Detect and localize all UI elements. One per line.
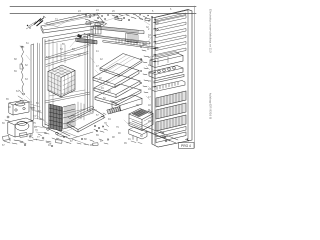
freezer drawer band 1 (hatched) — [156, 91, 186, 107]
right margin rotated text upper — [209, 9, 213, 53]
door top trim bar — [156, 13, 186, 21]
right margin rotated text lower — [209, 93, 213, 119]
hinge arrow cluster (dark) — [26, 16, 46, 29]
leader lines scattered — [26, 14, 152, 134]
cabinet front rail top (diagonal) — [45, 45, 88, 61]
svg-text:PRG 4: PRG 4 — [181, 144, 191, 148]
door seal strips (left) — [31, 43, 40, 121]
door shelf bar 6 — [156, 48, 186, 57]
middle stacked shelf 1 (wire shelf) — [100, 54, 142, 77]
small hatched box left of strip A — [91, 27, 101, 35]
door shelf bar 5 — [156, 42, 186, 51]
compressor unit upper (fan box) — [9, 100, 35, 115]
trim strip above panel — [46, 14, 88, 24]
cabinet interior lines — [49, 35, 85, 119]
long rail lower — [103, 41, 158, 50]
small parts row far top — [112, 14, 156, 21]
egg tray — [152, 81, 185, 92]
title box bottom right — [179, 143, 195, 149]
screw above title box — [186, 139, 190, 142]
door kick plate — [156, 132, 186, 143]
plinth diagonals bottom right of center — [128, 121, 178, 143]
evaporator box (hatched top) — [129, 109, 153, 131]
middle stacked shelf 4 — [95, 84, 141, 106]
small hatched grille bottom center (dark) — [101, 107, 121, 118]
compressor housing block (hatched) — [63, 104, 75, 129]
mid gap bracket column — [140, 44, 148, 93]
bottle rack (exploded left) — [149, 66, 183, 79]
compressor unit lower (dome on tray) — [8, 118, 33, 142]
leader arrows bottom-left column — [30, 104, 86, 144]
leader from hinge to panel — [44, 23, 58, 27]
pedestal below evaporator box — [129, 127, 147, 144]
latch dark cluster below panel — [77, 34, 90, 39]
freezer drawer band 3 (hatched) — [156, 115, 186, 131]
strip B long rail — [90, 35, 150, 47]
door shelf bar 4 — [156, 35, 186, 44]
screw cluster below base panel — [94, 125, 109, 133]
door shelf bar 3 — [156, 29, 186, 38]
part number labels — [2, 8, 172, 147]
condenser coil block (dark hatched) — [49, 104, 62, 131]
grille strip A (hatched, dark) — [94, 26, 144, 34]
small screws near plinth — [160, 131, 167, 142]
freezer drawer band 2 (hatched) — [156, 103, 186, 119]
condenser tube wavy — [18, 46, 25, 102]
svg-text:kylskap ER 8316 B: kylskap ER 8316 B — [209, 93, 213, 119]
wire basket (grid cube) — [48, 65, 75, 97]
middle stacked shelf 3 (glass w/ frame) — [94, 75, 140, 98]
cabinet body front — [43, 30, 94, 140]
cabinet rollers — [47, 128, 59, 135]
sill rail above base panel — [68, 106, 94, 119]
hatched grille box right (fan cover) — [126, 33, 138, 43]
cabinet front rail lower — [45, 92, 90, 103]
dark grille strip C — [76, 38, 97, 44]
crisper box below shelves — [112, 95, 142, 111]
door outline — [152, 10, 192, 148]
top rule 1 — [10, 6, 196, 8]
machine compartment lines — [63, 102, 93, 137]
door mid trim — [154, 75, 184, 84]
base panel bottom center — [67, 109, 104, 132]
door shelf bar 1 — [156, 16, 186, 25]
door bar end brackets — [154, 22, 157, 87]
middle stacked shelf 2 — [93, 64, 139, 88]
top rule 2 — [10, 13, 196, 15]
door bottom trim — [156, 127, 186, 138]
cabinet top panel (wide slab) — [41, 14, 103, 33]
right page border — [194, 6, 196, 148]
bottom hardware band — [20, 133, 109, 146]
butter compartment box (exploded left) — [150, 52, 183, 68]
svg-text:Electrolux reservdelslista nr: Electrolux reservdelslista nr 113 — [209, 9, 213, 53]
door shelf bar 2 — [156, 22, 186, 31]
small parts left bottom — [3, 116, 53, 147]
speck cluster top right of panel (dense hardware) — [85, 13, 109, 26]
cabinet front rail upper (diagonal) — [46, 52, 88, 67]
